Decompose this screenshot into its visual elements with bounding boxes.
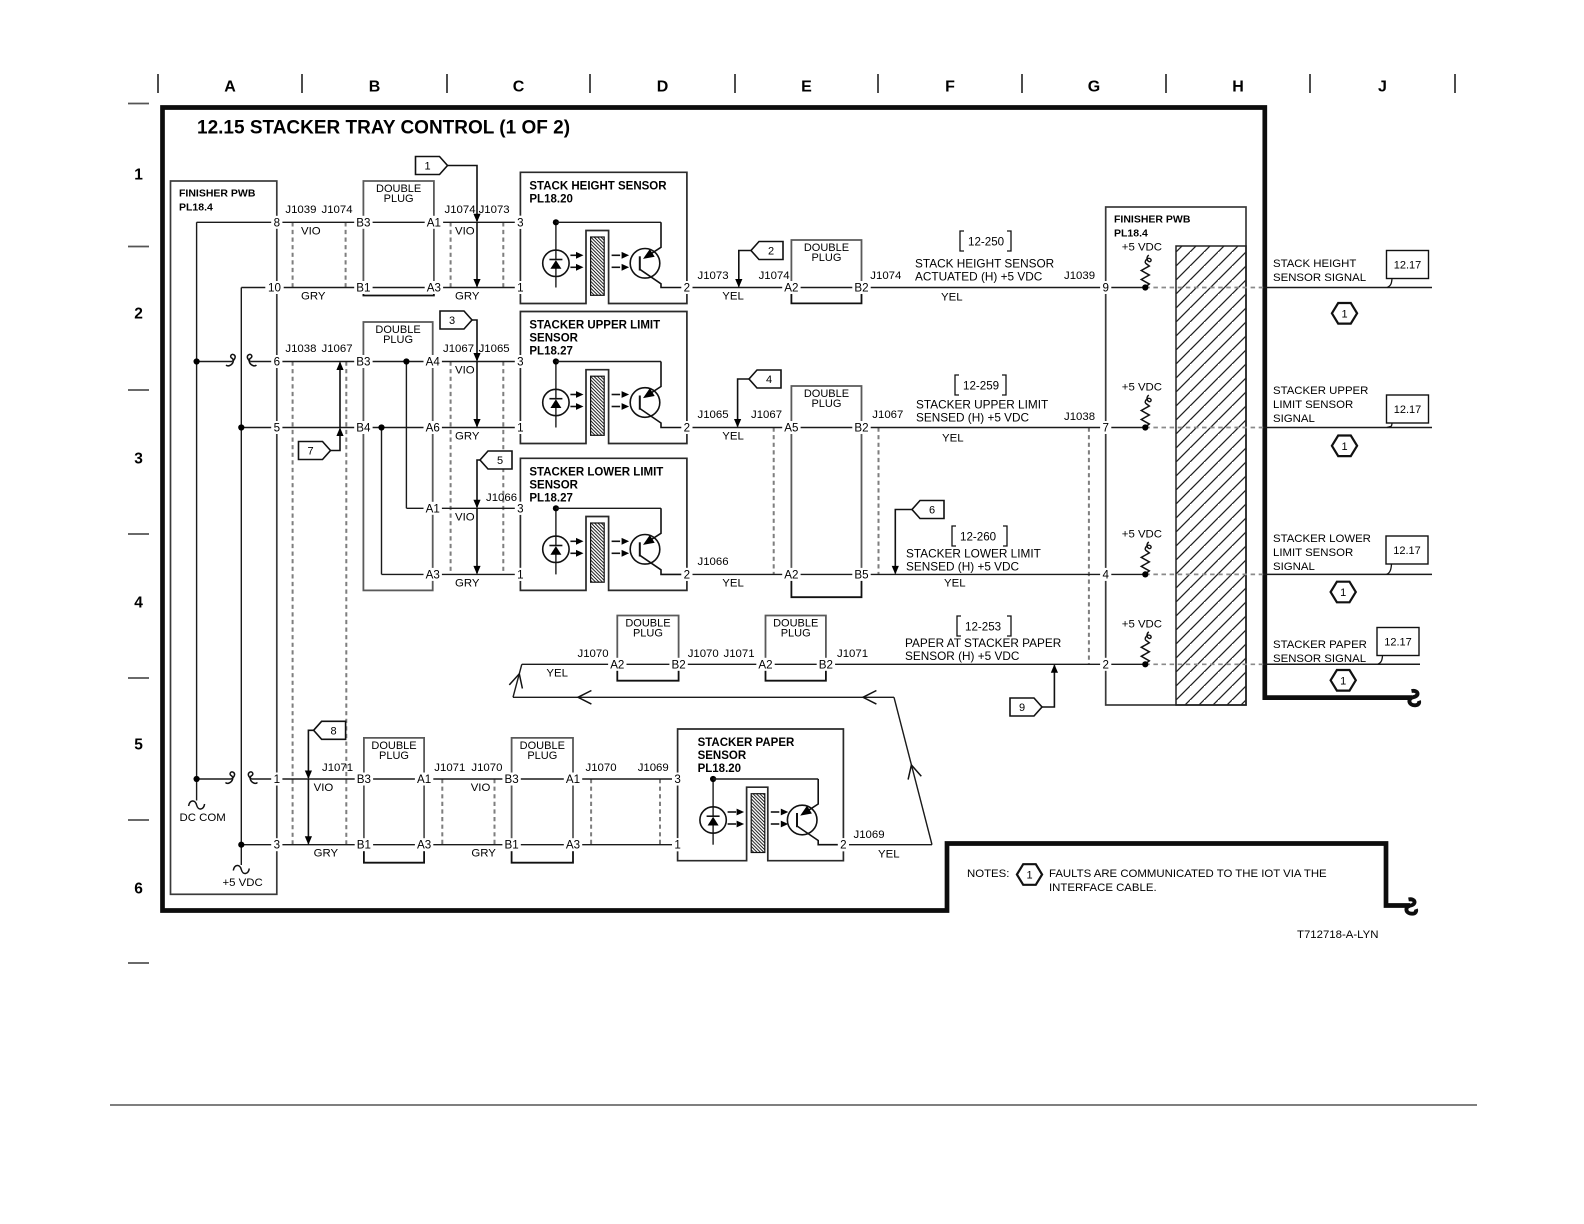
svg-text:PLUG: PLUG [384, 193, 414, 205]
svg-text:G: G [1088, 79, 1100, 96]
svg-text:12-259: 12-259 [963, 380, 999, 393]
wire row1 GRY A3 to sensor pin1 [434, 287, 521, 289]
svg-text:B3: B3 [505, 773, 519, 786]
note hexagon row2 [1332, 436, 1357, 457]
route chevron left 1 [578, 691, 591, 705]
sensor stacker paper pin 2 [678, 729, 844, 838]
flag 2 pointer [751, 242, 783, 260]
svg-text:1: 1 [1340, 675, 1346, 687]
DC COM junction wire row5 [194, 776, 200, 782]
connector double plug rows2-3 pin A3 [363, 322, 432, 590]
connector double plug row1 pin A3 [363, 181, 434, 288]
flag 6 pointer [912, 501, 944, 519]
connector double plug row4 b pin B2 [766, 616, 826, 665]
svg-text:PL18.27: PL18.27 [529, 346, 572, 358]
bottom separator line [110, 1104, 1477, 1106]
svg-text:J: J [1378, 79, 1387, 96]
svg-text:J1074: J1074 [870, 270, 901, 282]
svg-text:STACKER UPPER LIMIT: STACKER UPPER LIMIT [529, 320, 660, 332]
svg-text:8: 8 [331, 725, 337, 737]
svg-text:B1: B1 [356, 282, 370, 295]
double plug rows2-3 internal jumper B3->A1 [405, 362, 407, 509]
wire row2 pin6 to B3 [197, 361, 233, 363]
wire row2 VIO A4 to sensor pin3 [433, 361, 521, 363]
svg-text:1: 1 [424, 161, 430, 173]
finisher left pin 1 [271, 773, 282, 786]
dashed connector boundary J1074/J1073 row1 right pair [450, 222, 452, 287]
svg-text:GRY: GRY [455, 291, 480, 303]
wire row4 B2 to finisher pin2 [826, 663, 1145, 665]
svg-text:GRY: GRY [455, 431, 480, 443]
svg-text:INTERFACE CABLE.: INTERFACE CABLE. [1049, 882, 1157, 894]
row margin dashes [128, 103, 149, 105]
wire row1 YEL B2 to finisher pin9 [862, 287, 1146, 289]
svg-text:PAPER AT STACKER PAPER: PAPER AT STACKER PAPER [905, 636, 1061, 650]
wire route diagonal down to sensor output [894, 697, 932, 844]
svg-text:A2: A2 [784, 568, 798, 581]
svg-text:GRY: GRY [455, 577, 480, 589]
svg-text:SENSOR: SENSOR [529, 333, 578, 345]
svg-text:6: 6 [274, 356, 280, 369]
svg-text:B3: B3 [356, 216, 370, 229]
wire row3 YEL sensor pin2 to A2 [687, 573, 792, 575]
svg-text:PL18.27: PL18.27 [529, 492, 572, 504]
svg-text:PL18.4: PL18.4 [1114, 228, 1148, 240]
DC COM rail vertical [196, 222, 198, 800]
wire route diagonal up to row4 [513, 664, 522, 697]
svg-text:B2: B2 [854, 282, 868, 295]
wire row5 break hooks around +5VDC rail [226, 772, 235, 783]
svg-text:SENSOR SIGNAL: SENSOR SIGNAL [1273, 653, 1366, 665]
svg-text:A6: A6 [426, 422, 440, 435]
svg-text:2: 2 [684, 422, 690, 435]
sensor stack height pin 2 [520, 172, 687, 281]
+5VDC junction wire row5 GRY [238, 842, 244, 848]
svg-text:PLUG: PLUG [383, 334, 413, 346]
svg-text:12.15 STACKER TRAY CONTROL (1: 12.15 STACKER TRAY CONTROL (1 OF 2) [197, 118, 570, 139]
svg-text:PL18.20: PL18.20 [529, 193, 572, 205]
svg-text:+5 VDC: +5 VDC [1122, 382, 1162, 394]
svg-text:7: 7 [1102, 422, 1108, 435]
svg-text:YEL: YEL [941, 292, 963, 304]
svg-text:+5 VDC: +5 VDC [1122, 528, 1162, 540]
+5 VDC rail vertical [240, 288, 242, 866]
svg-text:9: 9 [1102, 282, 1108, 295]
svg-text:2: 2 [768, 246, 774, 258]
svg-text:+5 VDC: +5 VDC [1122, 618, 1162, 630]
column grid ticks [157, 74, 159, 93]
svg-text:5: 5 [134, 737, 143, 754]
svg-text:J1039: J1039 [1064, 270, 1095, 282]
svg-text:J1038: J1038 [285, 343, 316, 355]
svg-text:A1: A1 [427, 216, 441, 229]
flag 9 pointer [1010, 698, 1042, 716]
svg-text:SENSED (H) +5 VDC: SENSED (H) +5 VDC [916, 411, 1030, 425]
svg-text:J1065: J1065 [698, 409, 729, 421]
+5VDC junction wire5 [238, 424, 244, 430]
svg-text:J1070: J1070 [578, 648, 609, 660]
wire row2 B4 to A6 inside plug [363, 427, 432, 429]
svg-text:5: 5 [274, 422, 280, 435]
svg-text:1: 1 [517, 422, 523, 435]
route chevron left 2 [863, 691, 876, 705]
svg-text:PLUG: PLUG [811, 252, 841, 264]
wire row3 YEL B5 to finisher pin4 [862, 573, 1146, 575]
finisher left pin 10 [265, 281, 283, 294]
wire row5 GRY A3 to sensor pin1 [573, 844, 678, 846]
svg-text:YEL: YEL [722, 577, 744, 589]
svg-text:A1: A1 [426, 502, 440, 515]
svg-text:STACKER PAPER: STACKER PAPER [698, 737, 795, 749]
svg-text:J1070: J1070 [586, 762, 617, 774]
svg-text:B5: B5 [854, 568, 868, 581]
flag 5 pointer [480, 451, 512, 469]
svg-text:J1067: J1067 [322, 343, 353, 355]
svg-text:3: 3 [274, 839, 280, 852]
svg-text:FINISHER PWB: FINISHER PWB [1114, 214, 1191, 226]
svg-text:STACKER UPPER: STACKER UPPER [1273, 385, 1368, 397]
svg-text:J1073: J1073 [479, 204, 510, 216]
wire row5 B1 to A3 inside plug2 [512, 844, 573, 846]
svg-text:VIO: VIO [314, 782, 334, 794]
svg-text:J1074: J1074 [445, 204, 476, 216]
svg-text:2: 2 [840, 839, 846, 852]
note hexagon row1 [1332, 303, 1357, 324]
svg-text:SENSOR: SENSOR [529, 479, 578, 491]
finisher PWB right box [1106, 207, 1246, 705]
svg-text:STACKER UPPER LIMIT: STACKER UPPER LIMIT [916, 398, 1048, 412]
wire route horizontal [513, 696, 894, 698]
svg-text:12-250: 12-250 [968, 236, 1004, 249]
svg-text:+5 VDC: +5 VDC [1122, 242, 1162, 254]
svg-text:SENSOR (H) +5 VDC: SENSOR (H) +5 VDC [905, 649, 1020, 663]
svg-text:3: 3 [517, 502, 523, 515]
frame break squiggle bottom [1406, 899, 1416, 913]
svg-text:DC COM: DC COM [180, 812, 226, 824]
wire row3 signal beyond frame [1264, 573, 1432, 575]
svg-text:J1038: J1038 [1064, 411, 1095, 423]
svg-text:STACK HEIGHT SENSOR: STACK HEIGHT SENSOR [529, 180, 667, 192]
svg-text:2: 2 [684, 568, 690, 581]
svg-text:J1071: J1071 [724, 648, 755, 660]
frame break squiggle right [1409, 691, 1419, 705]
dashed wire segment row1 to frame [1145, 287, 1264, 289]
fault code 12-250 [960, 231, 964, 251]
svg-text:12-260: 12-260 [960, 531, 996, 544]
svg-text:H: H [1232, 79, 1244, 96]
double plug rows2-3 internal jumper B4->A3 [381, 428, 383, 575]
note hexagon row4 [1331, 670, 1356, 691]
svg-text:J1067: J1067 [872, 409, 903, 421]
wire row2 pin5 to B4 [241, 427, 363, 429]
flag 8 pointer [314, 721, 346, 739]
wire row1 B3 to A1 inside plug [363, 221, 434, 223]
svg-text:SIGNAL: SIGNAL [1273, 413, 1315, 425]
wire row4 A2 to B2 inside plug2 [766, 663, 826, 665]
svg-text:FAULTS ARE COMMUNICATED TO THE: FAULTS ARE COMMUNICATED TO THE IOT VIA T… [1049, 868, 1327, 880]
svg-text:J1070: J1070 [688, 648, 719, 660]
dashed connector boundary row5 middle pair [441, 779, 443, 845]
svg-text:6: 6 [134, 881, 143, 898]
finisher PWB left box [171, 181, 277, 894]
svg-text:1: 1 [274, 773, 280, 786]
svg-text:STACK HEIGHT: STACK HEIGHT [1273, 258, 1356, 270]
svg-text:12.17: 12.17 [1393, 545, 1421, 557]
svg-text:GRY: GRY [301, 291, 326, 303]
sensor stacker lower limit pin 2 [520, 458, 687, 568]
svg-text:E: E [801, 79, 812, 96]
svg-text:ACTUATED (H) +5 VDC: ACTUATED (H) +5 VDC [915, 270, 1043, 284]
svg-text:3: 3 [517, 216, 523, 229]
svg-text:YEL: YEL [546, 667, 568, 679]
svg-text:7: 7 [307, 446, 313, 458]
svg-text:J1073: J1073 [698, 270, 729, 282]
svg-text:J1065: J1065 [479, 343, 510, 355]
finisher right pin 2 [1100, 658, 1111, 671]
svg-text:J1067: J1067 [751, 409, 782, 421]
svg-text:A2: A2 [784, 282, 798, 295]
wire row5 GRY A3 to B1 [424, 844, 512, 846]
wire row1 VIO A1 to sensor pin3 [434, 221, 521, 223]
svg-text:1: 1 [517, 568, 523, 581]
wire row3 VIO A1 to sensor pin3 [406, 507, 432, 509]
svg-text:STACKER LOWER LIMIT: STACKER LOWER LIMIT [529, 466, 663, 478]
notes hexagon 1 [1017, 864, 1042, 885]
svg-text:J1039: J1039 [285, 204, 316, 216]
wire row2 resume to B3 [250, 361, 363, 363]
svg-text:3: 3 [674, 773, 680, 786]
wire row5 B1 to A3 inside plug1 [364, 844, 424, 846]
svg-text:STACKER LOWER LIMIT: STACKER LOWER LIMIT [906, 547, 1041, 561]
svg-text:GRY: GRY [471, 848, 496, 860]
finisher right pin 4 [1100, 568, 1111, 581]
svg-text:STACKER PAPER: STACKER PAPER [1273, 639, 1367, 651]
svg-text:A3: A3 [566, 839, 580, 852]
svg-text:12-253: 12-253 [965, 621, 1001, 634]
fault code 12-259 [955, 375, 959, 395]
svg-text:B1: B1 [357, 839, 371, 852]
svg-text:A3: A3 [426, 568, 440, 581]
finisher right pin 7 [1100, 421, 1111, 434]
svg-text:J1067: J1067 [443, 343, 474, 355]
interface cable hatched area [1176, 246, 1246, 705]
svg-text:LIMIT SENSOR: LIMIT SENSOR [1273, 399, 1353, 411]
finisher left pin 8 [271, 216, 282, 229]
svg-text:A: A [224, 79, 236, 96]
wire row3 GRY A3 to sensor pin1 [382, 573, 433, 575]
svg-text:8: 8 [274, 216, 280, 229]
wire row5 VIO pin1 to B3 [197, 778, 232, 780]
svg-text:1: 1 [517, 282, 523, 295]
svg-text:1: 1 [674, 839, 680, 852]
svg-text:VIO: VIO [471, 782, 491, 794]
svg-text:3: 3 [517, 356, 523, 369]
finisher left pin 6 [271, 355, 282, 368]
svg-text:B2: B2 [819, 658, 833, 671]
svg-text:5: 5 [497, 455, 503, 467]
svg-text:10: 10 [268, 282, 281, 295]
svg-text:J1074: J1074 [759, 270, 790, 282]
svg-text:B3: B3 [357, 773, 371, 786]
svg-text:SENSOR SIGNAL: SENSOR SIGNAL [1273, 272, 1366, 284]
flag 7 pointer [299, 442, 331, 460]
off-page ref 12.17 row3 [1386, 536, 1428, 564]
wire row1 YEL sensor pin2 to A2 [687, 287, 792, 289]
svg-text:9: 9 [1019, 702, 1025, 714]
svg-text:J1069: J1069 [638, 762, 669, 774]
connector double plug rows2-3 E pin B5 [791, 386, 861, 574]
svg-text:PLUG: PLUG [633, 628, 663, 640]
dashed connector boundary J1039/J1074 row1 left pair [292, 222, 294, 287]
svg-text:PLUG: PLUG [379, 750, 409, 762]
svg-text:B2: B2 [854, 422, 868, 435]
svg-text:B: B [369, 79, 381, 96]
svg-text:SENSOR: SENSOR [698, 750, 747, 762]
svg-text:1: 1 [1341, 441, 1347, 453]
svg-text:J1070: J1070 [471, 762, 502, 774]
svg-text:VIO: VIO [455, 225, 475, 237]
svg-text:PL18.20: PL18.20 [698, 763, 741, 775]
drawing frame border [163, 108, 1413, 911]
wire row2 B3 to A4 inside plug [363, 361, 432, 363]
wire row5 B3 to A1 inside plug1 [364, 778, 424, 780]
wire row1 signal beyond frame [1264, 287, 1432, 289]
route chevron up [509, 674, 522, 689]
wire row5 GRY pin3 to B1 [241, 844, 364, 846]
svg-text:A3: A3 [427, 282, 441, 295]
wire row2 YEL A5 to B2 inside plug [791, 427, 861, 429]
svg-text:J1071: J1071 [434, 762, 465, 774]
svg-text:B4: B4 [356, 422, 371, 435]
svg-text:A5: A5 [784, 422, 798, 435]
finisher right pin 9 [1100, 281, 1111, 294]
wire row3 YEL A2 to B5 inside plug [791, 573, 861, 575]
svg-text:1: 1 [134, 167, 143, 184]
wire row5 B3 to A1 inside plug2 [512, 778, 573, 780]
wire row2 YEL sensor pin2 to A5 [687, 427, 792, 429]
wire row1 VIO pin8 to B3 [197, 221, 364, 223]
svg-text:4: 4 [766, 374, 772, 386]
svg-text:12.17: 12.17 [1384, 637, 1412, 649]
wire row4 YEL left end to A2 [522, 663, 618, 665]
svg-text:J1066: J1066 [486, 492, 517, 504]
dashed connector boundary J1038/J1067 tall pair [292, 362, 294, 845]
wire row5 VIO A1 to B3 [424, 778, 512, 780]
svg-text:PLUG: PLUG [811, 398, 841, 410]
svg-text:2: 2 [1102, 658, 1108, 671]
svg-text:1: 1 [1341, 308, 1347, 320]
dashed wire segment row4 to frame [1145, 663, 1264, 665]
finisher left pin 5 [271, 421, 282, 434]
wire row2 signal beyond frame [1264, 427, 1432, 429]
svg-text:VIO: VIO [455, 365, 475, 377]
dashed wire segment row2 to frame [1145, 427, 1264, 429]
off-page ref 12.17 row2 [1387, 395, 1429, 423]
svg-text:D: D [657, 79, 669, 96]
svg-text:12.17: 12.17 [1394, 404, 1422, 416]
fault code 12-253 [957, 616, 961, 636]
sensor stacker upper limit pin 2 [520, 312, 687, 422]
svg-text:J1066: J1066 [698, 556, 729, 568]
svg-text:PLUG: PLUG [781, 628, 811, 640]
wire row5 YEL sensor pin2 output [843, 844, 932, 846]
svg-text:3: 3 [449, 315, 455, 327]
svg-text:STACK HEIGHT SENSOR: STACK HEIGHT SENSOR [915, 257, 1054, 271]
wire row2 YEL B2 to finisher pin7 [862, 427, 1146, 429]
flag 1 pointer [416, 157, 448, 175]
svg-text:A4: A4 [426, 356, 441, 369]
svg-text:A3: A3 [417, 839, 431, 852]
dashed connector boundary J1067/J1065/J1066 tall pair [450, 362, 452, 575]
route chevron up-left [908, 765, 921, 780]
svg-text:A1: A1 [417, 773, 431, 786]
finisher left pin 3 [271, 838, 282, 851]
svg-text:12.17: 12.17 [1394, 260, 1422, 272]
svg-text:J1069: J1069 [854, 829, 885, 841]
wire row2 GRY A6 to sensor pin1 [433, 427, 521, 429]
svg-text:B3: B3 [356, 356, 370, 369]
dashed wire segment row3 to frame [1145, 573, 1264, 575]
svg-text:C: C [513, 79, 525, 96]
svg-text:GRY: GRY [314, 848, 339, 860]
dashed connector boundary J1070/J1069 row5 pair [590, 779, 592, 845]
svg-text:NOTES:: NOTES: [967, 868, 1009, 880]
svg-text:STACKER LOWER: STACKER LOWER [1273, 533, 1371, 545]
svg-text:J1074: J1074 [322, 204, 353, 216]
connector double plug row5 a pin A3 [364, 738, 424, 845]
svg-text:PL18.4: PL18.4 [179, 202, 213, 214]
wire row1 YEL A2 to B2 inside plug [791, 287, 861, 289]
svg-text:4: 4 [134, 595, 143, 612]
svg-text:A2: A2 [758, 658, 772, 671]
flag 3 pointer [440, 311, 472, 329]
DC COM junction wire6 [194, 358, 200, 364]
svg-text:SIGNAL: SIGNAL [1273, 561, 1315, 573]
svg-text:A1: A1 [566, 773, 580, 786]
note hexagon row3 [1331, 582, 1356, 603]
svg-text:B2: B2 [672, 658, 686, 671]
off-page ref 12.17 row4 [1377, 628, 1419, 656]
svg-text:F: F [945, 79, 955, 96]
svg-text:J1071: J1071 [322, 762, 353, 774]
svg-text:J1071: J1071 [837, 648, 868, 660]
svg-text:PLUG: PLUG [527, 750, 557, 762]
connector double plug row4 a pin B2 [617, 616, 678, 665]
wire row4 signal beyond frame [1264, 663, 1420, 665]
dashed connector boundary J1067 row2 right pair [773, 428, 775, 575]
wire row5 VIO A1 to sensor pin3 [573, 778, 678, 780]
wire row4 A2 to B2 inside plug1 [617, 663, 678, 665]
svg-text:VIO: VIO [301, 225, 321, 237]
svg-text:VIO: VIO [455, 511, 475, 523]
svg-text:YEL: YEL [944, 577, 966, 589]
svg-text:6: 6 [929, 505, 935, 517]
svg-text:+5 VDC: +5 VDC [223, 877, 263, 889]
svg-text:YEL: YEL [722, 431, 744, 443]
svg-text:3: 3 [134, 451, 143, 468]
svg-text:YEL: YEL [722, 291, 744, 303]
svg-text:1: 1 [1026, 870, 1032, 882]
dashed connector boundary J1038 right long [1088, 428, 1090, 665]
flag 4 pointer [749, 370, 781, 388]
fault code 12-260 [952, 526, 956, 546]
svg-text:B1: B1 [505, 839, 519, 852]
svg-text:A2: A2 [610, 658, 624, 671]
connector double plug row5 b pin A3 [512, 738, 573, 845]
wire row4 B2 to A2 [679, 663, 766, 665]
svg-text:YEL: YEL [878, 849, 900, 861]
svg-text:T712718-A-LYN: T712718-A-LYN [1297, 929, 1378, 941]
